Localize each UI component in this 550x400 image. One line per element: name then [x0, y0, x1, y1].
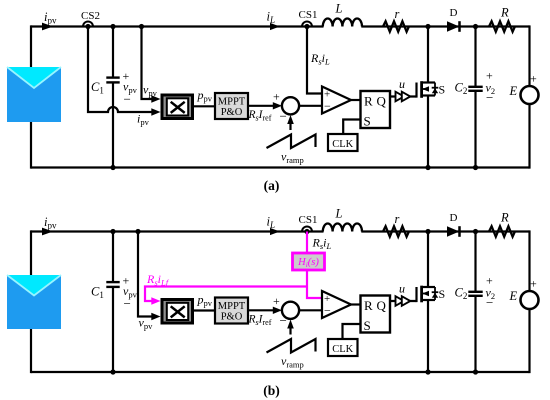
wire summing junction to comparator (b) — [299, 309, 322, 311]
wire top rail (a) — [31, 25, 324, 27]
svg-text:+: + — [530, 277, 537, 291]
capacitor C2 (b) — [468, 232, 482, 373]
MPPT P&O block (b) — [215, 298, 248, 324]
svg-text:P&O: P&O — [221, 312, 243, 323]
svg-text:E: E — [509, 289, 518, 303]
capacitor C1 (b) — [106, 232, 119, 373]
summing junction (a) — [282, 97, 299, 114]
wire v_pv sense to multiplier (a) — [142, 27, 153, 100]
node: source junction on bottom rail (b) — [425, 369, 430, 374]
node: C1 top junction (b) — [110, 229, 115, 234]
svg-text:Q: Q — [377, 94, 387, 109]
wire multiplier to MPPT (b) — [194, 309, 215, 311]
wire bottom rail (a) — [31, 166, 530, 168]
PV panel (b) — [7, 275, 61, 329]
transistor S (MOSFET) (b) — [417, 232, 439, 373]
diode D (a) — [447, 21, 460, 32]
svg-text:−: − — [486, 295, 493, 310]
arrow into summing junction (a) — [273, 102, 282, 109]
filter block Hi(s) (b) — [293, 253, 325, 270]
wire S input from CLK (b) — [343, 324, 361, 339]
svg-text:S: S — [364, 318, 371, 333]
resistor R load (a) — [489, 21, 515, 31]
wire multiplier to MPPT (a) — [194, 105, 215, 107]
node: C2 bottom junction (a) — [473, 165, 478, 170]
multiplier block (a) — [162, 95, 193, 119]
svg-text:(b): (b) — [263, 383, 280, 398]
svg-text:−: − — [280, 109, 287, 124]
wire summing junction to comparator (a) — [299, 105, 322, 107]
svg-text:P&O: P&O — [221, 107, 243, 118]
svg-text:−: − — [324, 304, 331, 318]
wire left vertical from PV to rails (a) — [30, 25, 32, 168]
RS flip-flop (b) — [361, 296, 391, 334]
wire right edge (b) — [528, 230, 530, 291]
arrow v_ramp into summing junction (b) — [287, 320, 294, 335]
node: C2 top junction (a) — [473, 24, 478, 29]
svg-text:R: R — [500, 6, 509, 20]
svg-text:CS2: CS2 — [81, 10, 100, 22]
node: C1 top junction (a) — [110, 24, 115, 29]
svg-text:−: − — [324, 99, 331, 113]
wire Q output to gate driver (a) — [390, 95, 417, 97]
current sensor CS2 (a) — [83, 22, 93, 30]
capacitor C2 (a) — [468, 27, 482, 168]
svg-text:−: − — [124, 296, 131, 311]
wire R_s i_L from CS1 to comparator + (a) — [307, 27, 322, 94]
source E (a) — [521, 86, 539, 104]
PV panel (a) — [7, 67, 61, 122]
wire top rail (b) — [31, 230, 324, 232]
svg-text:R: R — [500, 211, 509, 225]
wire magenta Hi(s) to comparator + (b) — [307, 270, 322, 298]
MPPT P&O block (a) — [215, 93, 248, 119]
RS flip-flop (a) — [361, 91, 391, 129]
arrow into multiplier top input (a) — [151, 95, 160, 102]
wire magenta feedback R_s i_Lf to multiplier (b) — [145, 287, 307, 302]
svg-text:CS1: CS1 — [299, 9, 318, 21]
svg-text:CS1: CS1 — [299, 214, 318, 226]
arrow v_ramp into summing junction (a) — [287, 115, 294, 130]
capacitor C1 (a) — [106, 27, 119, 168]
arrow magenta into multiplier top input (b) — [151, 297, 160, 304]
multiplier block (b) — [162, 300, 193, 324]
comparator (b) — [322, 291, 351, 318]
svg-text:CLK: CLK — [332, 344, 353, 355]
resistor R load (b) — [489, 226, 515, 236]
node: drain junction on top rail (b) — [425, 229, 430, 234]
svg-text:Q: Q — [377, 298, 387, 313]
svg-text:u: u — [399, 282, 405, 296]
summing junction (b) — [282, 302, 299, 319]
wire v_pv sense to multiplier bottom input (b) — [138, 232, 153, 317]
svg-text:S: S — [439, 287, 446, 301]
svg-text:R: R — [364, 94, 373, 109]
resistor r (a) — [383, 21, 409, 31]
svg-text:D: D — [450, 7, 458, 19]
source E (b) — [521, 291, 539, 309]
svg-text:+: + — [273, 90, 280, 104]
wire comparator to RS latch (b) — [350, 303, 361, 305]
wire MPPT to summing junction (a) — [248, 105, 275, 107]
node: C2 bottom junction (b) — [473, 369, 478, 374]
gate driver buffer (b) — [396, 296, 411, 306]
wire S input from CLK (a) — [343, 120, 360, 135]
svg-text:−: − — [124, 92, 131, 107]
inductor L (b) — [323, 223, 362, 231]
wire right edge (a) — [528, 25, 530, 86]
v_ramp sawtooth (b) — [267, 339, 316, 353]
wire magenta CS1 to Hi(s) (b) — [306, 232, 308, 254]
node: C2 top junction (b) — [473, 229, 478, 234]
svg-text:S: S — [364, 114, 371, 129]
inductor L (a) — [323, 18, 362, 26]
svg-text:L: L — [335, 2, 343, 16]
svg-text:R: R — [364, 298, 373, 313]
arrow i_pv on top rail (b) — [42, 228, 53, 236]
svg-text:(a): (a) — [264, 178, 280, 193]
svg-text:−: − — [486, 90, 493, 105]
svg-text:E: E — [509, 84, 518, 98]
arrow i_pv on top rail (a) — [42, 23, 53, 31]
CLK block (a) — [328, 134, 358, 151]
svg-text:L: L — [335, 207, 343, 221]
current sensor CS1 (b) — [302, 227, 312, 235]
current sensor CS1 (a) — [302, 22, 312, 30]
CLK block (b) — [328, 339, 358, 356]
comparator (a) — [322, 87, 351, 114]
wire Q output to gate driver (b) — [390, 300, 417, 302]
gate driver buffer (a) — [396, 92, 411, 102]
svg-text:r: r — [395, 7, 400, 21]
wire MPPT to summing junction (b) — [248, 309, 275, 311]
arrow i_L on top rail (a) — [270, 23, 280, 30]
wire comparator to RS latch (a) — [350, 99, 361, 101]
svg-text:S: S — [439, 83, 446, 97]
node: v_pv tap junction (b) — [135, 229, 140, 234]
wire bottom rail (b) — [31, 371, 530, 373]
svg-text:MPPT: MPPT — [218, 97, 246, 108]
svg-text:r: r — [395, 212, 400, 226]
v_ramp sawtooth (a) — [267, 135, 316, 149]
svg-text:+: + — [530, 72, 537, 86]
wire i_pv sense from CS2 to multiplier with hop over C1 wire (a) — [88, 27, 153, 113]
node: v_pv tap junction (a) — [139, 24, 144, 29]
svg-text:CLK: CLK — [332, 139, 353, 150]
node: C1 bottom junction (b) — [110, 369, 115, 374]
svg-text:−: − — [280, 313, 287, 328]
node: C1 bottom junction (a) — [110, 165, 115, 170]
resistor r (b) — [383, 226, 409, 236]
node: drain junction on top rail (a) — [425, 24, 430, 29]
diode D (b) — [447, 226, 460, 237]
node: source junction on bottom rail (a) — [425, 165, 430, 170]
arrow into multiplier bottom input (b) — [151, 313, 160, 320]
transistor S (MOSFET) (a) — [417, 27, 439, 168]
arrow i_L on top rail (b) — [270, 228, 280, 235]
arrow into multiplier bottom input (a) — [151, 108, 160, 115]
wire left vertical (b) — [30, 230, 32, 373]
arrow into summing junction (b) — [273, 307, 282, 314]
svg-text:D: D — [450, 212, 458, 224]
svg-text:MPPT: MPPT — [218, 301, 246, 312]
svg-text:u: u — [399, 77, 405, 91]
svg-text:+: + — [273, 294, 280, 308]
svg-text:Hi(s): Hi(s) — [297, 257, 319, 269]
